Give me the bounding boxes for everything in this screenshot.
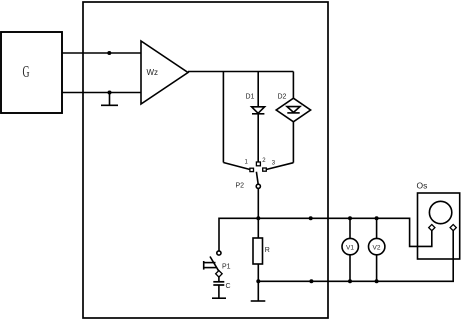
capacitor C: [213, 282, 230, 290]
svg-text:D1: D1: [246, 94, 255, 101]
svg-text:R: R: [265, 247, 270, 254]
node: junction top of V1: [348, 216, 352, 220]
frame: outer enclosure rectangle: [83, 2, 328, 318]
wire: bottom bus to oscilloscope: [258, 230, 453, 281]
wire: voltmeter V1 to bottom bus: [349, 255, 351, 281]
svg-text:P1: P1: [222, 264, 231, 271]
svg-text:3: 3: [272, 161, 276, 167]
node: junction on bottom input wire: [108, 91, 112, 95]
svg-text:V2: V2: [373, 244, 381, 251]
svg-text:1: 1: [245, 160, 249, 166]
wire: top bus from P1 branch to oscilloscope: [219, 218, 432, 251]
diode D2 (zener in diamond outline): [276, 94, 310, 122]
generator G: [1, 32, 62, 113]
wire: D2 bottom to switch contact 3: [266, 122, 293, 170]
wire: P1 to capacitor C: [218, 276, 220, 281]
wire: D1 cathode to switch contact 2: [257, 114, 259, 162]
wire: voltmeter V2 to bottom bus: [376, 255, 378, 281]
wire: G bottom output to amplifier input: [62, 92, 141, 94]
svg-text:V1: V1: [346, 244, 354, 251]
wire: switch pole down to measurement node: [257, 188, 259, 218]
resistor R: [253, 238, 270, 264]
node: main junction at R top: [256, 216, 260, 220]
wire: top bus to voltmeter V2: [376, 218, 378, 238]
wire: node to resistor R: [257, 218, 259, 238]
node: junction on top input wire: [107, 51, 111, 55]
node: junction at R bottom: [256, 279, 260, 283]
svg-text:Wz: Wz: [147, 68, 159, 77]
node: junction bottom of V2: [375, 279, 379, 283]
ground below resistor R: [251, 281, 266, 301]
op-amp Wz (amplifier triangle): [141, 41, 188, 104]
node: junction on bottom bus: [309, 279, 313, 283]
wire: left branch vertical to switch contact 1: [223, 72, 250, 170]
node: junction on top bus: [309, 216, 313, 220]
switch P2 (3-position selector): [236, 158, 276, 190]
node: junction top of V2: [375, 216, 379, 220]
ground at amplifier input: [101, 93, 118, 106]
wire: middle branch vertical to diode D1: [257, 72, 259, 108]
wire: right branch vertical to diode D2: [292, 72, 294, 99]
push-button P1: [204, 251, 231, 277]
svg-text:P2: P2: [236, 183, 245, 190]
svg-text:C: C: [226, 283, 231, 290]
ground below capacitor C: [212, 285, 226, 298]
voltmeter V2: [369, 238, 385, 254]
svg-text:Os: Os: [417, 181, 428, 191]
wire: amplifier output horizontal: [188, 71, 293, 73]
node: junction bottom of V1: [348, 279, 352, 283]
oscilloscope Os: [417, 181, 460, 260]
wire: resistor R to bottom bus: [257, 264, 259, 281]
diode D1: [246, 94, 265, 114]
svg-text:G: G: [23, 62, 30, 81]
wire: top bus to voltmeter V1: [349, 218, 351, 238]
svg-text:D2: D2: [278, 94, 287, 101]
svg-text:2: 2: [262, 158, 266, 164]
wire: G top output to amplifier input: [62, 52, 141, 54]
voltmeter V1: [342, 238, 358, 254]
